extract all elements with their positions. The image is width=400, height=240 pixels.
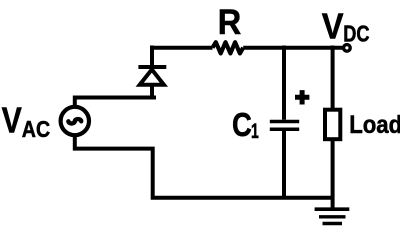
svg-text:C: C [232,106,252,144]
svg-text:DC: DC [343,21,369,47]
svg-text:R: R [218,3,242,42]
svg-text:Load: Load [349,111,400,139]
svg-text:AC: AC [22,116,50,142]
svg-text:V: V [322,6,344,47]
svg-text:V: V [2,100,23,141]
svg-text:1: 1 [251,119,259,143]
